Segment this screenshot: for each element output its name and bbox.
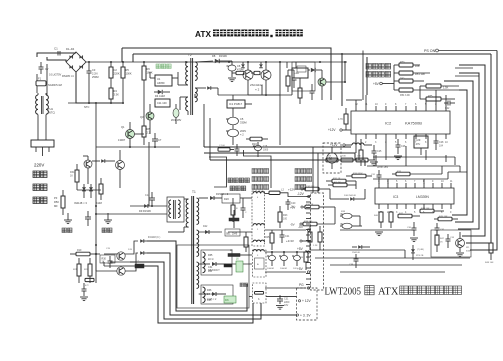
right bundle wire 6 <box>452 90 467 215</box>
T2 feedback winding <box>186 97 188 111</box>
svg-text:100K: 100K <box>126 72 132 76</box>
transistor Q5d <box>117 252 125 260</box>
svg-text:R55: R55 <box>428 95 433 98</box>
svg-text:70K: 70K <box>342 156 346 158</box>
resistor R29 pill <box>85 278 94 287</box>
svg-text:C6: C6 <box>237 64 241 68</box>
wire N segment <box>46 64 48 95</box>
5VSB block box <box>292 62 315 91</box>
label 220V AC input text <box>33 163 47 204</box>
transistor Q3 standby switch <box>140 104 154 128</box>
svg-text:220V: 220V <box>34 163 44 168</box>
resistor R44 h <box>420 208 444 213</box>
label PG <box>299 283 310 289</box>
+12V node below IC2 <box>330 143 352 147</box>
svg-text:4.7K: 4.7K <box>338 118 343 121</box>
vertical wire x262 <box>261 85 263 95</box>
T2 primary wires <box>178 72 188 115</box>
wire pin links <box>204 140 210 160</box>
resistor R12 base <box>251 71 260 74</box>
svg-text:IN4148 × 3: IN4148 × 3 <box>74 201 87 205</box>
label drive parts <box>106 248 133 251</box>
svg-text:1000M: 1000M <box>267 268 274 270</box>
label 3.3V regulator <box>240 283 248 287</box>
ground below IC2 <box>370 156 402 166</box>
svg-text:104: 104 <box>439 145 444 148</box>
svg-text:47U: 47U <box>416 142 421 146</box>
wire IC2 pin12 up <box>346 100 362 106</box>
wire 5VSB feed <box>218 78 292 95</box>
svg-text:D4 4148: D4 4148 <box>155 94 165 98</box>
wire below IC3 rail1 <box>340 229 414 231</box>
capacitor CY2 bridge <box>85 211 91 226</box>
zener D43 <box>411 245 424 260</box>
wire to plug L <box>37 115 39 141</box>
label drive section <box>228 178 249 191</box>
wire above IC3 a <box>373 179 448 184</box>
zener ZD2 <box>82 184 86 198</box>
transistor Q2 main switch <box>261 62 271 95</box>
fan dashed box <box>323 143 341 173</box>
svg-text:R52: R52 <box>400 78 405 81</box>
svg-text:+12V: +12V <box>288 188 295 192</box>
comparator IC3 LM339N <box>375 180 454 214</box>
svg-text:R31 1K: R31 1K <box>333 178 341 180</box>
junction dots left rail <box>95 205 97 255</box>
svg-text:C18: C18 <box>263 146 268 148</box>
output choke dashed box L1 <box>252 191 265 246</box>
svg-text:× 2: × 2 <box>240 133 244 137</box>
svg-text:R6: R6 <box>147 67 151 71</box>
AC neutral wire <box>47 57 66 62</box>
svg-text:KA7500B: KA7500B <box>405 121 422 126</box>
wire PFC label right <box>244 150 272 188</box>
long wire top 2 <box>133 53 491 55</box>
right bundle wire 1 <box>470 51 497 251</box>
resistor row above IC3 c <box>356 156 375 162</box>
box C11 block <box>155 99 170 107</box>
capacitor C6 5VSB <box>227 61 244 77</box>
svg-text:IC1 PC817: IC1 PC817 <box>229 102 243 106</box>
resistor R38 <box>303 221 335 226</box>
ground IC3 area <box>375 232 418 242</box>
T2 secondary winding 1 <box>195 62 197 80</box>
snubber C18 R on -12V <box>253 142 269 157</box>
green inductor L6 <box>236 259 243 273</box>
box R30 drive <box>100 255 115 264</box>
svg-text:FR106: FR106 <box>219 54 227 58</box>
bundle stub row b <box>455 75 479 77</box>
resistor R21 <box>73 258 81 283</box>
capacitor C10 <box>310 84 315 100</box>
svg-text:+ 3. 3V: + 3. 3V <box>300 314 311 318</box>
mag-amp winding A <box>203 252 206 273</box>
ground in box <box>456 253 464 257</box>
svg-text:C21: C21 <box>285 235 290 238</box>
resistor R48 <box>485 236 494 264</box>
svg-text:C 100: C 100 <box>219 145 226 147</box>
zener ZD3 <box>89 184 93 198</box>
right bundle wire 2 <box>466 54 491 243</box>
aux connector dashed box 1 <box>253 250 267 277</box>
svg-text:R25: R25 <box>265 236 270 239</box>
svg-text:Q1: Q1 <box>121 125 125 129</box>
diode D6 <box>259 62 263 68</box>
resistor R42 h <box>398 213 420 218</box>
svg-text:R50: R50 <box>54 200 59 204</box>
resistor R43a <box>308 226 312 250</box>
svg-text:(?) 4R): (?) 4R) <box>417 249 424 251</box>
capacitor C21 <box>280 230 291 243</box>
svg-text:R54 3.9K: R54 3.9K <box>400 94 410 97</box>
snubber pill row <box>218 144 240 156</box>
label +5V feed <box>290 206 305 210</box>
diode D5 <box>241 62 245 68</box>
resistor PF <box>54 190 65 215</box>
svg-text:Q3: Q3 <box>140 115 144 119</box>
feedback wire 2 <box>204 153 355 160</box>
capacitor C30 <box>407 222 417 236</box>
choke winding w3 <box>253 250 264 257</box>
label 2SC4242 <box>250 83 263 92</box>
label 6.3U/275V <box>49 73 62 77</box>
capacitor C26 <box>396 139 407 154</box>
resistor R34 above IC3 <box>346 173 372 178</box>
rail PG wire <box>265 287 306 289</box>
resistor R11 base <box>232 71 244 74</box>
resistor R25 <box>265 230 274 250</box>
svg-text:× 2: × 2 <box>255 88 260 92</box>
diode D31 <box>344 195 365 201</box>
svg-text:SBL: SBL <box>226 234 231 236</box>
transistor Q4 <box>118 122 135 147</box>
svg-text:R38 360: R38 360 <box>304 221 313 223</box>
rail +5V second wire <box>265 271 306 273</box>
svg-text:IC2: IC2 <box>385 121 392 126</box>
lower rail wire <box>68 102 96 104</box>
resistor R6 startup <box>142 62 153 120</box>
wire below IC3 rail3 <box>315 257 470 259</box>
svg-text:RS205 ×4: RS205 ×4 <box>62 74 74 78</box>
svg-text:C13: C13 <box>145 194 150 197</box>
svg-text:NTC: NTC <box>84 105 89 109</box>
resistor R51 <box>394 71 430 76</box>
diode D16 <box>140 239 147 243</box>
transistor Q1 main switch <box>243 62 253 95</box>
+5V arrow node <box>373 65 394 90</box>
resistor R24 at IC2 left <box>338 108 348 130</box>
svg-text:C25: C25 <box>377 150 382 153</box>
svg-text:C5: C5 <box>240 117 244 121</box>
diode D30 <box>352 245 370 254</box>
wire IC3 to bundle <box>448 172 467 179</box>
common-mode choke L0 left winding <box>36 93 38 114</box>
capacitor C32b <box>435 223 445 236</box>
resistor R54 <box>394 88 459 97</box>
resistor R45 h <box>434 216 458 221</box>
rectifier row3 <box>199 262 226 272</box>
fuse F1 <box>36 74 46 93</box>
resistor R33 above IC3 <box>392 171 442 176</box>
junction dots on HV bus <box>110 61 346 63</box>
svg-text:R35: R35 <box>208 254 213 257</box>
capacitor C24c <box>292 252 301 270</box>
svg-text:C1: C1 <box>54 47 58 51</box>
svg-text:1000: 1000 <box>263 150 269 152</box>
svg-text:200V: 200V <box>240 129 246 133</box>
svg-text:13007: 13007 <box>118 138 126 142</box>
resistor R50 <box>394 61 420 68</box>
diode D10 <box>308 68 322 72</box>
svg-text:+12V: +12V <box>330 143 338 147</box>
svg-text:IC3: IC3 <box>393 195 398 199</box>
svg-text:C29: C29 <box>416 138 421 142</box>
svg-text:LWT2005: LWT2005 <box>325 287 362 298</box>
svg-text:10V: 10V <box>284 304 289 307</box>
wire top loop corner B <box>132 54 134 62</box>
capacitor C31 output <box>277 296 290 307</box>
svg-text:NGRF/5.1M: NGRF/5.1M <box>48 83 62 87</box>
diode bar D24 <box>229 210 239 228</box>
svg-text:+ 12V: + 12V <box>302 299 312 303</box>
diode bar L8 <box>228 250 252 257</box>
capacitor C33 in box <box>446 234 455 248</box>
svg-text:MF: MF <box>54 204 58 208</box>
label +3.3V feed <box>286 239 310 243</box>
svg-text:10K: 10K <box>357 156 361 158</box>
snubber resistor R13 <box>286 70 290 92</box>
wire standby down <box>148 142 150 206</box>
output dashed box 12V 3.3V <box>297 288 318 320</box>
resistor R22 <box>84 258 92 283</box>
bridge DC+ wire <box>86 61 122 63</box>
choke core <box>42 96 44 114</box>
wire standby base <box>135 128 151 134</box>
svg-text:ATX: ATX <box>378 287 399 298</box>
svg-text:D20: D20 <box>224 197 229 201</box>
mag-amp inner box A <box>201 250 232 275</box>
wire IC1 <box>233 95 252 117</box>
IC1 optocoupler <box>227 100 245 108</box>
capacitor C38 <box>349 254 359 268</box>
wire below IC3 rail5 <box>340 271 445 273</box>
capacitor C22 <box>444 101 455 111</box>
svg-text:L4A: L4A <box>294 71 299 75</box>
svg-text:C2: C2 <box>114 68 118 72</box>
svg-text:T2: T2 <box>188 53 192 57</box>
svg-text:+5V: +5V <box>297 247 304 251</box>
capacitor C17 low <box>82 283 87 296</box>
resistor R16 <box>246 137 268 146</box>
wire loop3 source <box>110 261 130 263</box>
rectifier row4 <box>199 292 226 301</box>
diode D4 <box>154 90 170 98</box>
inductor L2 out <box>265 188 307 197</box>
label -5V <box>298 225 310 231</box>
wire below IC3 rail4 <box>330 264 462 266</box>
T1 secondary winding C <box>197 262 199 288</box>
svg-text:+12V: +12V <box>328 128 336 132</box>
ground drive block <box>80 297 88 301</box>
label -5V feed <box>290 223 302 227</box>
T2 core <box>191 58 193 115</box>
label +12V left of IC2 <box>328 128 351 132</box>
power connector dashed box <box>306 193 324 290</box>
capacitor C13 <box>145 192 155 206</box>
bridge DC- wire <box>76 72 123 103</box>
bottom loop wire 2 <box>147 253 297 315</box>
svg-text:0.1U/275V: 0.1U/275V <box>49 73 62 77</box>
svg-text:LM339N: LM339N <box>416 195 429 199</box>
label +3.3V out <box>296 314 311 318</box>
box bottom right cluster <box>431 230 471 257</box>
svg-text:100: 100 <box>283 218 288 221</box>
svg-text:1000M: 1000M <box>280 268 287 270</box>
wire top right block <box>287 62 296 68</box>
svg-text:14 Ω: 14 Ω <box>207 293 212 296</box>
T1 core <box>192 196 194 304</box>
wire Q collector join <box>248 94 280 96</box>
rectifier D21 pair <box>222 194 240 203</box>
ground symbol hot <box>64 213 72 224</box>
aux connector dashed box 2 <box>253 283 267 303</box>
capacitor C16 <box>108 256 113 268</box>
zener ZD1 <box>171 104 182 124</box>
svg-text:IN4148 (C ): IN4148 (C ) <box>148 236 161 239</box>
AC line top wire <box>37 53 76 57</box>
rail -5V wire <box>265 229 306 231</box>
wire Q6 to diode <box>125 253 138 271</box>
wire Q5 to diode <box>125 241 138 254</box>
capacitor C20 <box>286 199 297 210</box>
resistor R46 <box>299 250 308 270</box>
label +12V feed <box>288 188 305 192</box>
svg-text:C35: C35 <box>207 299 212 302</box>
svg-text:250M: 250M <box>92 75 99 79</box>
svg-text:PF: PF <box>54 196 58 200</box>
wire top loop corner A <box>121 48 123 62</box>
wire drive mid <box>95 253 117 271</box>
mag-amp outer box <box>177 245 249 308</box>
svg-text:D8: D8 <box>212 54 216 58</box>
label +5V <box>297 247 310 253</box>
wire standby emitter rail <box>96 146 180 148</box>
svg-text:330M: 330M <box>240 121 247 125</box>
right bundle wire 4 <box>458 73 479 229</box>
transistor Q5 regulator <box>318 70 326 100</box>
long wire top 1 <box>122 48 331 100</box>
label PFC filter text <box>252 169 269 190</box>
svg-text:R36 1K: R36 1K <box>306 204 314 206</box>
wire 5VSB out <box>326 62 346 83</box>
svg-text:4148: 4148 <box>96 201 102 205</box>
T2 secondary winding 2 <box>195 88 197 102</box>
bulk capacitor C6b <box>226 125 246 145</box>
svg-text:R44 10K: R44 10K <box>421 208 430 210</box>
ground for C6 <box>228 78 236 82</box>
resistor R36 <box>305 204 335 209</box>
rectifier SB3040 row2 <box>199 225 222 234</box>
resistor R3 bleeder <box>109 86 119 104</box>
vertical link x363 <box>362 51 364 101</box>
transistor Q6d <box>117 267 125 275</box>
label IN4148 x3 <box>74 201 102 205</box>
resistor R40 <box>374 211 383 228</box>
T1 primary winding <box>184 199 189 227</box>
svg-text:R36: R36 <box>207 289 212 292</box>
connector feed wires <box>313 147 318 193</box>
svg-text:U1: U1 <box>157 77 161 81</box>
svg-text:C7: C7 <box>158 138 162 142</box>
resistor R31 <box>70 164 79 190</box>
capacitor C24a <box>267 252 276 270</box>
svg-text:2.2N: 2.2N <box>92 72 98 76</box>
wire bundle row <box>373 157 455 165</box>
wire loop4 source <box>104 262 123 266</box>
IC U1 standby controller <box>150 72 178 86</box>
resistor R2 bleeder <box>109 62 120 86</box>
resistor R47 in box <box>435 230 445 252</box>
resistor R31b <box>326 178 356 183</box>
snubber R on 12V row <box>231 198 238 222</box>
svg-text:220K: 220K <box>114 72 120 76</box>
resistor R43b <box>313 226 322 250</box>
resistor R32b <box>305 186 330 191</box>
resistor R26 <box>359 139 363 166</box>
capacitor C1 <box>54 47 64 56</box>
resistor R8 <box>142 120 151 145</box>
ground symbol cold <box>104 213 112 224</box>
mag-amp inner box B <box>201 285 233 304</box>
resistor row above IC3 a <box>326 156 338 162</box>
box L4 block <box>292 68 308 78</box>
wire left rail <box>95 102 97 283</box>
wire into T3 a <box>130 205 167 207</box>
inductor L5 <box>352 143 372 145</box>
svg-text:PS ON: PS ON <box>424 49 436 53</box>
transistor Q7 <box>83 156 92 168</box>
label +12V out <box>298 299 311 303</box>
resistor R32 <box>99 178 103 200</box>
wire cluster joins <box>77 168 120 190</box>
snubber capacitor C9 <box>288 70 297 88</box>
resistor R55 <box>420 86 455 101</box>
svg-text:D30 IN4148: D30 IN4148 <box>344 195 356 197</box>
bulk capacitor C5 <box>226 117 247 125</box>
label L1 choke <box>254 183 258 187</box>
wire left IC3 links <box>330 181 365 226</box>
resistor R53 <box>420 84 459 90</box>
bottom loop wire 1 <box>147 241 247 311</box>
ellipse R39 <box>340 211 360 219</box>
svg-text:-5V: -5V <box>290 223 295 227</box>
right bundle wire 5 <box>444 81 473 222</box>
wire rows to choke <box>226 198 252 264</box>
svg-text:1K Ω: 1K Ω <box>208 258 214 261</box>
svg-text:C26: C26 <box>401 145 406 148</box>
green text standby label <box>156 64 171 69</box>
AC plug connector <box>31 140 54 156</box>
bottom loop wire 4 <box>144 266 253 323</box>
vertical wire x280 <box>279 62 281 145</box>
label 5V text <box>366 64 391 78</box>
wire above IC3 b <box>367 166 460 174</box>
svg-text:+3.3V: +3.3V <box>286 239 294 243</box>
label hot ground <box>62 228 72 233</box>
resistor R19 <box>70 249 100 256</box>
mag-amp winding B <box>203 287 206 303</box>
label -12V <box>297 192 310 198</box>
